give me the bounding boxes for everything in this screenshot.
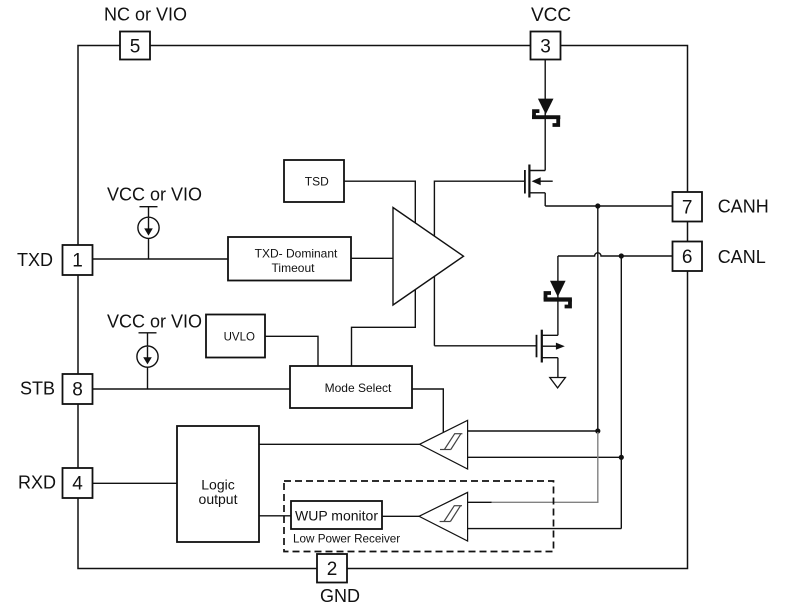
dashed box Low Power Receiver (284, 481, 554, 552)
ground symbol under Q2 (550, 378, 566, 388)
svg-text:Mode Select: Mode Select (325, 381, 392, 395)
svg-text:2: 2 (327, 559, 338, 580)
box TXD- Dominant Timeout (228, 237, 351, 281)
svg-text:Timeout: Timeout (272, 261, 316, 275)
current source I2 (VCC or VIO pullup on STB) (137, 333, 158, 389)
svg-text:4: 4 (72, 474, 83, 495)
svg-text:STB: STB (20, 379, 55, 399)
pin 2 box (317, 554, 347, 583)
wire zener D2 chain to low-side fet (557, 256, 559, 335)
wire driver to low-side gate (434, 345, 536, 347)
zener D2 (low side) (544, 281, 572, 307)
wire receiver 1 top output to CANH net (468, 430, 598, 432)
wire receiver 1 bottom output to CANL net (468, 456, 622, 458)
pin 1 box (63, 245, 93, 275)
svg-text:VCC or VIO: VCC or VIO (107, 312, 202, 332)
wire RXD pin4 to logic output (93, 482, 178, 484)
wire CANL with hop over CANH sense (558, 253, 673, 256)
hysteresis icon receiver 1 (440, 434, 462, 450)
svg-text:CANL: CANL (718, 247, 766, 267)
IC boundary box (78, 46, 688, 569)
wire CANH sense vertical (597, 206, 599, 431)
wire logic output to WUP monitor (259, 515, 291, 517)
box TSD (284, 160, 344, 202)
svg-text:RXD: RXD (18, 473, 56, 493)
hysteresis icon receiver 2 (440, 506, 462, 522)
wire receiver 2 top input (black stub) (468, 501, 492, 503)
wire receiver 2 bottom input from CANL sense (468, 528, 622, 530)
driver triangle amp (393, 208, 464, 306)
pin 4 box (63, 468, 93, 498)
receiver 2 triangle (low power) (419, 492, 468, 541)
pin 8 box (63, 374, 93, 404)
wire TSD output to mode-select chain (344, 181, 415, 366)
svg-text:3: 3 (540, 36, 551, 57)
svg-text:1: 1 (72, 251, 83, 272)
pin 7 box (673, 192, 703, 222)
wire WUP monitor to receiver 2 (382, 515, 419, 517)
node receiver1 bottom junction (619, 455, 624, 460)
transistor Q2 low-side mosfet (536, 330, 565, 378)
svg-text:NC or VIO: NC or VIO (104, 4, 187, 24)
pin 5 box (120, 32, 150, 60)
svg-text:VCC or VIO: VCC or VIO (107, 185, 202, 205)
svg-text:8: 8 (72, 380, 83, 401)
zener D1 (high side) (532, 99, 560, 125)
box Logic output (177, 426, 259, 542)
svg-text:VCC: VCC (531, 5, 571, 26)
svg-text:UVLO: UVLO (224, 331, 255, 343)
wire VCC pin3 down to high-side fet (544, 60, 546, 171)
svg-text:5: 5 (130, 36, 141, 57)
box UVLO (206, 315, 265, 358)
wire logic output to receiver 1 (259, 443, 420, 445)
wire mode select to receiver enable (412, 389, 443, 432)
wire STB pin8 to mode select (93, 388, 291, 390)
wire high-side fet to CANH pin7 (545, 205, 672, 207)
svg-text:WUP monitor: WUP monitor (295, 507, 378, 523)
pin 6 box (673, 242, 703, 272)
svg-text:TSD: TSD (305, 174, 329, 188)
wire WUP sense (gray) from CANH node (491, 432, 598, 502)
svg-text:7: 7 (682, 197, 693, 218)
receiver 1 triangle (420, 420, 468, 469)
svg-text:Low Power Receiver: Low Power Receiver (293, 533, 400, 546)
wire CANL sense vertical (620, 256, 622, 529)
svg-text:output: output (199, 491, 238, 507)
box WUP monitor (291, 501, 382, 529)
svg-text:6: 6 (682, 247, 693, 268)
node CANH junction (595, 203, 600, 208)
node receiver1 top junction (595, 428, 600, 433)
wire driver to high-side gate (434, 181, 524, 346)
current source I1 (VCC or VIO pullup on TXD) (138, 207, 159, 259)
transistor Q1 high-side mosfet (524, 165, 553, 207)
svg-text:TXD: TXD (17, 250, 53, 270)
wire TXD pin1 to TXD-dominant-timeout (93, 258, 229, 260)
svg-text:GND: GND (320, 586, 360, 606)
svg-text:CANH: CANH (718, 196, 769, 216)
pin 3 box (531, 32, 561, 60)
wire timeout to driver input (351, 257, 393, 259)
wire UVLO to mode select (265, 336, 318, 366)
box Mode Select (290, 366, 412, 408)
svg-text:TXD- Dominant: TXD- Dominant (255, 247, 338, 261)
node CANL junction (619, 253, 624, 258)
